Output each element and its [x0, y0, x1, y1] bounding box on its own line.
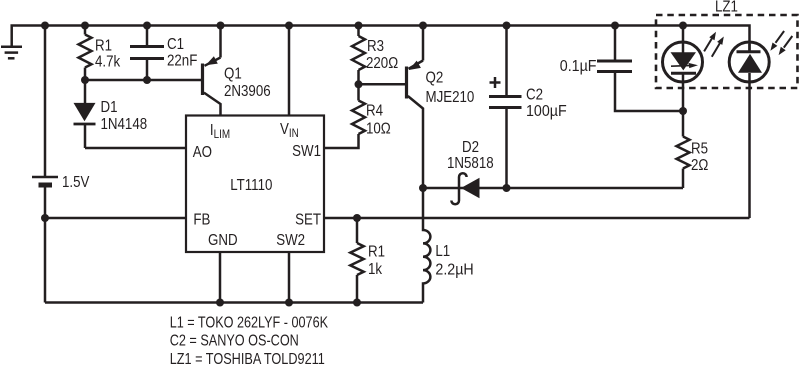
- svg-text:D1: D1: [101, 99, 118, 116]
- svg-text:C2 = SANYO OS-CON: C2 = SANYO OS-CON: [170, 331, 299, 349]
- svg-text:SW1: SW1: [292, 143, 321, 160]
- svg-text:R5: R5: [691, 141, 708, 158]
- svg-text:0.1µF: 0.1µF: [560, 59, 597, 76]
- svg-text:L1 = TOKO 262LYF - 0076K: L1 = TOKO 262LYF - 0076K: [170, 313, 329, 331]
- svg-text:LT1110: LT1110: [230, 177, 272, 194]
- svg-text:LZ1 = TOSHIBA TOLD9211: LZ1 = TOSHIBA TOLD9211: [170, 351, 325, 365]
- svg-text:SW2: SW2: [276, 232, 305, 249]
- svg-text:1k: 1k: [368, 261, 383, 278]
- svg-text:R1: R1: [368, 244, 385, 261]
- svg-text:4.7k: 4.7k: [95, 54, 121, 71]
- svg-text:C1: C1: [167, 36, 184, 53]
- svg-text:SET: SET: [295, 212, 321, 229]
- svg-text:Q2: Q2: [426, 70, 444, 87]
- svg-text:2Ω: 2Ω: [691, 157, 709, 174]
- svg-text:2.2µH: 2.2µH: [435, 262, 473, 279]
- svg-text:1.5V: 1.5V: [62, 174, 90, 191]
- svg-text:GND: GND: [208, 232, 238, 249]
- svg-text:1N5818: 1N5818: [447, 155, 494, 172]
- svg-text:2N3906: 2N3906: [224, 83, 271, 100]
- svg-text:220Ω: 220Ω: [366, 55, 398, 72]
- svg-text:1N4148: 1N4148: [101, 116, 148, 133]
- svg-text:R3: R3: [367, 38, 384, 55]
- svg-text:AO: AO: [193, 144, 212, 161]
- svg-text:22nF: 22nF: [167, 53, 198, 70]
- svg-text:100µF: 100µF: [526, 103, 567, 120]
- svg-text:Q1: Q1: [224, 66, 242, 83]
- svg-text:R1: R1: [95, 38, 112, 55]
- svg-text:R4: R4: [366, 103, 383, 120]
- svg-text:C2: C2: [526, 87, 543, 104]
- svg-text:L1: L1: [435, 243, 450, 260]
- svg-text:D2: D2: [462, 139, 479, 156]
- svg-text:MJE210: MJE210: [426, 89, 475, 106]
- svg-text:LZ1: LZ1: [715, 0, 738, 16]
- svg-text:10Ω: 10Ω: [366, 121, 391, 138]
- svg-text:FB: FB: [193, 212, 210, 229]
